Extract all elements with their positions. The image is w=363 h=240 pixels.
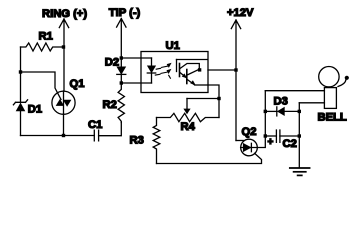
wire U1 collector to +12V rail (208, 69, 236, 71)
wire RING line down to Q1 anode (63, 47, 65, 91)
junction dot +12V / collector (234, 68, 237, 71)
svg-text:D1: D1 (28, 104, 42, 116)
junction dot D2 bottom / R2 top (120, 81, 123, 84)
diode D3 (265, 107, 299, 116)
svg-text:D3: D3 (274, 96, 288, 108)
svg-text:R3: R3 (130, 135, 144, 147)
capacitor C1 (94, 130, 98, 141)
capacitor C2 (265, 130, 299, 142)
junction dot D3 right (298, 110, 301, 113)
junction dot C2 right (298, 134, 301, 137)
wire bell lower terminal (299, 102, 324, 104)
wire left rail D1 to bottom (20, 111, 22, 136)
bell hammer (338, 79, 346, 86)
svg-text:RING (+): RING (+) (42, 8, 87, 20)
junction dot TIP / D2 top (120, 56, 123, 59)
wire U1 emitter loop (208, 85, 219, 118)
wire C1 right to R2 bottom (99, 123, 122, 136)
wire bottom left (21, 135, 95, 137)
resistor R2 (118, 83, 124, 123)
diode D2 (116, 58, 126, 83)
wire left rail from R1 down to D1 (20, 47, 22, 102)
wire +12V to Q2 anode (236, 140, 243, 142)
junction dot C2 left (264, 134, 267, 137)
potentiometer R4 wiper (183, 99, 219, 115)
junction dot R1-RING (62, 45, 65, 48)
svg-text:TIP (-): TIP (-) (109, 7, 141, 19)
resistor R3 (153, 118, 160, 164)
potentiometer R4 (157, 113, 220, 121)
wire right rail bell/D3/C2/ground (298, 103, 300, 168)
thyristor Q1 (52, 91, 75, 136)
ground (290, 168, 310, 175)
bell body box (324, 88, 336, 109)
bell gong (319, 67, 339, 87)
svg-text:C1: C1 (88, 119, 102, 131)
svg-text:C2: C2 (283, 138, 297, 150)
thyristor Q2 (241, 139, 258, 156)
svg-text:R1: R1 (39, 31, 53, 43)
junction dot U1 collector node (198, 68, 201, 71)
wire left rail D3/C2 (264, 91, 266, 136)
junction dot D3 left (264, 110, 267, 113)
svg-text:D2: D2 (105, 57, 119, 69)
diode D1 (zener) (13, 100, 27, 112)
wire R3 to Q2 gate (157, 153, 262, 163)
node +12V input arrow (231, 20, 240, 141)
LED inside U1 (147, 58, 156, 83)
node RING (+) input arrow (59, 19, 68, 47)
junction dot left rail / gate branch (19, 70, 22, 73)
svg-text:Q2: Q2 (242, 126, 257, 138)
resistor R1 (21, 43, 64, 51)
junction dot emitter rail / wiper (217, 97, 220, 100)
node TIP (-) input arrow (117, 19, 126, 59)
wire LED anode (121, 57, 151, 59)
svg-text:+12V: +12V (227, 7, 254, 19)
wire gate branch to Q1 (21, 72, 62, 100)
light arrows inside U1 (155, 63, 171, 78)
svg-text:U1: U1 (166, 40, 180, 52)
svg-text:Q1: Q1 (70, 78, 85, 90)
optocoupler U1 box (141, 52, 208, 93)
svg-text:BELL: BELL (318, 112, 347, 124)
phototransistor pair inside U1 (177, 60, 209, 86)
wire bell upper terminal (265, 90, 324, 92)
svg-text:R4: R4 (181, 121, 196, 133)
wire LED cathode (121, 82, 151, 84)
svg-text:+: + (268, 137, 274, 148)
wire Q2 cathode to C2 left node (257, 136, 265, 148)
junction dot Q1 cathode / bottom wire (62, 134, 65, 137)
svg-text:R2: R2 (103, 99, 117, 111)
